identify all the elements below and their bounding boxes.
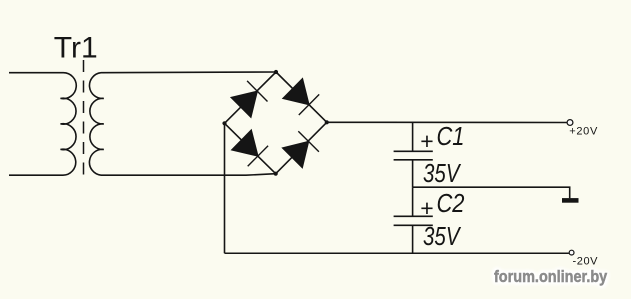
transformer Tr1 core: [83, 60, 85, 182]
svg-text:35V: 35V: [423, 221, 462, 251]
svg-text:+: +: [420, 128, 433, 154]
wire bridge side right-bottom: [276, 122, 327, 173]
diode D2 upper-right: [283, 79, 319, 115]
node AC top junction dot: [274, 70, 278, 74]
svg-text:-20V: -20V: [573, 255, 599, 267]
wire capacitor lead C2 bottom: [412, 226, 414, 253]
svg-text:Tr1: Tr1: [54, 32, 98, 65]
svg-text:+: +: [420, 195, 433, 221]
wire bridge side top-right: [276, 72, 327, 122]
node AC bottom junction dot: [274, 172, 278, 176]
terminal +20V circle: [567, 120, 573, 126]
transformer Tr1 primary stub wire top-left: [9, 72, 63, 74]
wire capacitor lead C2 top: [412, 187, 414, 216]
wire bridge side left-top: [225, 72, 277, 123]
svg-text:35V: 35V: [423, 158, 462, 188]
wire secondary bottom to bridge AC node: [101, 174, 276, 176]
svg-text:C2: C2: [437, 188, 465, 218]
node DC minus junction dot: [222, 121, 226, 125]
diode D1 upper-left: [231, 81, 267, 117]
wire capacitor lead C1 top: [412, 123, 414, 151]
terminal -20V circle: [569, 250, 574, 255]
diode D4 lower-right: [283, 131, 319, 167]
wire bridge positive output to +20V terminal: [327, 121, 567, 123]
wire bridge side bottom-left: [225, 123, 276, 173]
wire negative node drop from bridge left node: [224, 123, 226, 253]
wire secondary top to bridge AC node: [101, 71, 276, 74]
transformer Tr1 primary winding: [61, 73, 77, 176]
wire midpoint to ground: [413, 187, 570, 198]
capacitor C1 plates: [394, 151, 433, 160]
wire negative rail bottom: [225, 252, 569, 254]
wire capacitor lead C1 bottom to midpoint: [412, 160, 414, 187]
svg-text:+20V: +20V: [569, 125, 598, 137]
diode D3 lower-left: [232, 130, 268, 166]
svg-text:C1: C1: [437, 121, 465, 151]
transformer Tr1 secondary winding: [89, 73, 103, 176]
ground: [562, 198, 579, 203]
capacitor C2 plates: [394, 216, 433, 225]
transformer Tr1 primary stub wire bottom-left: [9, 174, 63, 176]
node DC plus junction dot: [325, 120, 329, 124]
watermark forum.onliner.by: [494, 267, 607, 287]
